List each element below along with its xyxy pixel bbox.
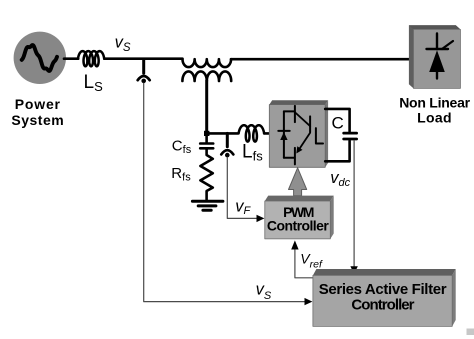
SAF controller box 3d top face xyxy=(313,269,456,275)
wire capacitor C bottom to inverter xyxy=(325,141,349,161)
node tap vF (chevron) xyxy=(221,150,233,154)
wire Lfs to inverter xyxy=(264,132,270,135)
svg-text:Rfs: Rfs xyxy=(171,165,191,184)
transformer T1 primary winding xyxy=(183,59,232,67)
IGBT top bar xyxy=(294,106,296,122)
svg-text:Controller: Controller xyxy=(267,218,329,234)
transformer T1 secondary winding xyxy=(182,71,231,81)
junction node xyxy=(204,131,209,136)
capacitor Cfs plates xyxy=(200,144,213,149)
svg-text:LS: LS xyxy=(84,72,104,94)
thyristor triangle xyxy=(429,50,445,72)
AC source circle (Power System) xyxy=(14,32,66,84)
svg-text:vdc: vdc xyxy=(330,169,350,189)
wire vF sense line to PWM controller xyxy=(227,157,257,218)
node tap vF (stub) xyxy=(226,133,229,146)
IGBT top stub xyxy=(284,110,295,112)
node tap vS (stub) xyxy=(142,60,145,74)
thyristor top lead xyxy=(436,34,438,50)
arrow vS into SAF controller xyxy=(305,298,313,305)
AC source sine wave xyxy=(22,45,57,71)
ground xyxy=(192,201,223,210)
gray arrow PWM to inverter xyxy=(289,168,307,196)
inverter box front face xyxy=(269,105,325,168)
capacitor Cfs top stub xyxy=(205,136,208,143)
wire vref from SAF to PWM xyxy=(295,250,313,278)
wire junction to Lfs xyxy=(207,132,238,135)
svg-text:Power: Power xyxy=(15,96,61,112)
PWM controller box 3d top face xyxy=(265,196,334,201)
IGBT bottom stub xyxy=(284,157,295,159)
thyristor cathode bar xyxy=(427,48,449,50)
IGBT bottom slant with arrow xyxy=(300,133,310,149)
wire source to Ls xyxy=(64,57,78,60)
svg-text:Load: Load xyxy=(417,109,452,125)
wire Ls to transformer xyxy=(104,57,182,60)
svg-text:vS: vS xyxy=(256,280,272,302)
node tap vS (chevron) xyxy=(138,76,150,80)
arrow vref into PWM controller xyxy=(291,240,298,249)
page corner mark xyxy=(467,329,474,336)
inverter box 3d top face xyxy=(269,100,328,104)
resistor Rfs xyxy=(200,148,212,199)
inverter box 3d right face xyxy=(325,100,328,167)
IGBT left rail xyxy=(283,111,285,157)
svg-text:Cfs: Cfs xyxy=(172,137,192,156)
inductor Lfs xyxy=(239,125,265,141)
thyristor bottom lead xyxy=(436,72,438,79)
non linear load box 3d back (top+left faces) xyxy=(409,25,461,88)
PWM controller box 3d right face xyxy=(330,196,333,239)
IGBT diode triangle xyxy=(280,132,287,140)
arrow vF into PWM controller xyxy=(257,215,265,222)
svg-text:Series Active Filter: Series Active Filter xyxy=(319,281,447,298)
IGBT bottom bar xyxy=(294,148,296,165)
IGBT L-shaped output xyxy=(316,128,323,143)
wire transformer secondary down xyxy=(205,81,208,134)
wire vS sense line to SAF controller xyxy=(144,83,305,301)
svg-text:Lfs: Lfs xyxy=(242,142,263,164)
svg-text:C: C xyxy=(332,114,344,133)
IGBT top slant xyxy=(295,113,310,127)
svg-text:Vref: Vref xyxy=(300,251,323,271)
node tap vS (dot) xyxy=(141,79,146,84)
svg-text:vF: vF xyxy=(235,197,251,217)
non linear load box front face xyxy=(414,29,461,88)
IGBT diode bar xyxy=(278,130,289,132)
inductor Ls xyxy=(78,51,104,66)
SAF controller box 3d right face xyxy=(452,269,456,326)
svg-text:vS: vS xyxy=(115,34,131,55)
wire transformer to non linear load xyxy=(231,58,414,61)
node tap vF (dot) xyxy=(225,153,230,158)
svg-text:System: System xyxy=(11,112,64,128)
IGBT right bar xyxy=(309,116,311,132)
PWM controller box front face xyxy=(265,201,331,239)
thyristor gate xyxy=(442,41,453,49)
arrow vdc into SAF controller xyxy=(350,266,357,274)
SAF controller box front face xyxy=(313,275,452,326)
svg-text:Controller: Controller xyxy=(351,297,414,314)
wire inverter top to capacitor C xyxy=(325,109,349,131)
wire vdc sense line xyxy=(353,141,355,267)
capacitor C plates xyxy=(344,133,357,139)
svg-text:Non Linear: Non Linear xyxy=(399,95,470,111)
